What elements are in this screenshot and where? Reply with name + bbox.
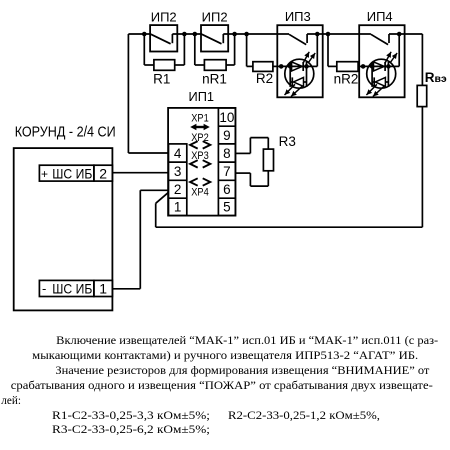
- svg-text:6: 6: [223, 182, 231, 197]
- svg-text:R3-С2-33-0,25-6,2 кОм±5%;: R3-С2-33-0,25-6,2 кОм±5%;: [52, 424, 210, 436]
- svg-text:Значение резисторов для формир: Значение резисторов для формирования изв…: [55, 365, 429, 377]
- svg-text:R2: R2: [256, 71, 273, 86]
- svg-text:9: 9: [223, 128, 231, 143]
- svg-text:ИП2: ИП2: [151, 10, 177, 25]
- svg-text:10: 10: [219, 110, 234, 125]
- svg-text:1: 1: [174, 200, 182, 215]
- svg-text:nR1: nR1: [202, 72, 227, 87]
- svg-text:ШС ИБ: ШС ИБ: [52, 281, 92, 297]
- svg-text:КОРУНД - 2/4 СИ: КОРУНД - 2/4 СИ: [15, 124, 116, 140]
- svg-text:ХР3: ХР3: [191, 150, 209, 162]
- svg-text:R2-С2-33-0,25-1,2 кОм±5%,: R2-С2-33-0,25-1,2 кОм±5%,: [228, 410, 380, 422]
- svg-text:лей:: лей:: [1, 395, 21, 407]
- svg-text:2: 2: [174, 182, 182, 197]
- svg-text:7: 7: [223, 164, 231, 179]
- svg-text:ХР1: ХР1: [191, 113, 209, 125]
- svg-text:-: -: [42, 281, 46, 296]
- svg-text:nR2: nR2: [334, 72, 359, 87]
- svg-text:1: 1: [99, 281, 107, 297]
- svg-text:5: 5: [223, 200, 231, 215]
- svg-text:R1-С2-33-0,25-3,3 кОм±5%;: R1-С2-33-0,25-3,3 кОм±5%;: [52, 410, 210, 422]
- svg-text:Rвэ: Rвэ: [425, 70, 447, 85]
- svg-text:+: +: [41, 167, 48, 181]
- svg-text:4: 4: [174, 146, 182, 161]
- svg-text:2: 2: [99, 165, 107, 181]
- svg-text:ШС ИБ: ШС ИБ: [52, 165, 92, 181]
- svg-text:Включение извещателей “МАК-1”: Включение извещателей “МАК-1” исп.01 ИБ …: [56, 335, 438, 347]
- svg-text:R3: R3: [279, 134, 296, 149]
- svg-text:ИП2: ИП2: [202, 10, 228, 25]
- svg-text:ИП3: ИП3: [285, 9, 311, 24]
- svg-text:ХР4: ХР4: [191, 186, 209, 198]
- svg-text:8: 8: [223, 146, 231, 161]
- svg-text:мыкающими контактами) и ручног: мыкающими контактами) и ручного извещате…: [32, 350, 418, 362]
- svg-text:ИП4: ИП4: [367, 9, 393, 24]
- svg-text:3: 3: [174, 164, 182, 179]
- svg-text:ИП1: ИП1: [189, 89, 215, 104]
- svg-text:R1: R1: [153, 72, 170, 87]
- svg-text:срабатывания одного и извещен: срабатывания одного и извещения “ПОЖАР” …: [11, 380, 433, 392]
